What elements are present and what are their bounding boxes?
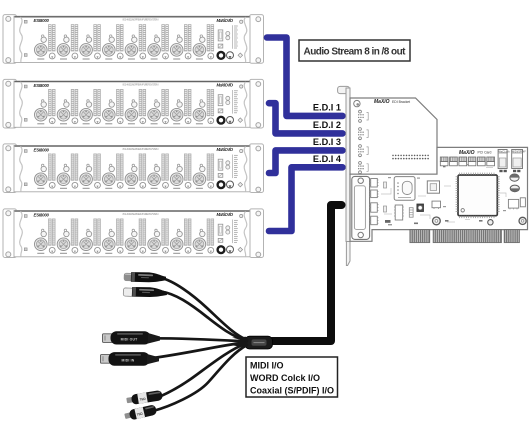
svg-text:MIDI OUT: MIDI OUT xyxy=(121,337,139,341)
svg-text:Coaxial (S/PDIF) I/O: Coaxial (S/PDIF) I/O xyxy=(250,385,334,395)
inductor L1 xyxy=(417,204,424,212)
capacitor C1 xyxy=(433,217,441,225)
svg-text:E.D.I 4: E.D.I 4 xyxy=(313,154,342,164)
svg-text:MaXiO: MaXiO xyxy=(374,99,390,105)
bracket bottom tail xyxy=(346,242,350,266)
IC U1 xyxy=(371,179,378,188)
main breakout cable xyxy=(272,205,342,341)
XLR connector 1 xyxy=(124,272,167,283)
EDI port group 1 xyxy=(358,110,368,122)
rack unit 1 (MaXiO I/O) xyxy=(3,15,264,64)
fan cable to RCA 2 xyxy=(153,345,247,411)
transistor Q1 xyxy=(432,201,441,208)
breakout description box xyxy=(246,357,338,397)
IC U3 xyxy=(371,203,378,212)
breakout hub connector xyxy=(245,336,273,349)
RCA connector 2 xyxy=(124,404,158,421)
fan cable to XLR 2 xyxy=(162,292,247,341)
svg-text:E.D.I 1: E.D.I 1 xyxy=(313,102,341,112)
resistor R1 xyxy=(384,182,387,188)
fan cable to MIDI IN xyxy=(151,343,246,359)
PCI edge connector fingers section 1 xyxy=(410,230,430,243)
RCA connector 1 xyxy=(126,390,163,406)
svg-text:EDI Bracket: EDI Bracket xyxy=(392,100,410,104)
capacitor C4 xyxy=(488,220,493,225)
EDI bracket plate xyxy=(350,98,437,174)
EDI cable 2 (rack2 to card) xyxy=(269,103,343,133)
bracket screw hole xyxy=(354,100,360,106)
resistor array RN1 xyxy=(409,208,413,218)
PCI edge connector fingers section 2 xyxy=(433,230,501,243)
rack unit 2 (MaXiO I/O) xyxy=(3,79,264,128)
chip U6 xyxy=(427,181,439,193)
connector block J7 xyxy=(498,150,507,169)
IC U8 xyxy=(508,199,518,208)
EDI cable 3 (rack3 to card) xyxy=(269,150,343,173)
EDI port group 4 xyxy=(358,162,368,174)
IC U2 xyxy=(371,190,378,198)
fan cable to XLR 1 xyxy=(161,278,247,340)
EDI cable 1 (rack1 to card) xyxy=(267,38,343,116)
resistor R3 xyxy=(385,220,391,223)
IC U5 xyxy=(395,205,403,220)
Audio Stream callout box xyxy=(299,40,410,61)
fan cable to RCA 1 xyxy=(160,344,246,397)
capacitor C3 xyxy=(510,185,519,192)
PCI card PCB outline xyxy=(350,147,528,241)
cable bundle wedge at hub xyxy=(230,337,246,348)
svg-text:WaCLock: WaCLock xyxy=(499,149,511,153)
MIDI OUT DIN connector xyxy=(103,331,161,344)
jumper pads xyxy=(499,170,502,172)
rack unit 3 (MaXiO I/O) xyxy=(3,144,264,193)
svg-text:WORD Colck I/O: WORD Colck I/O xyxy=(250,373,320,383)
svg-text:MIDI I/O: MIDI I/O xyxy=(250,361,284,371)
oscillator X1 xyxy=(394,177,415,201)
capacitor C2 xyxy=(510,174,519,181)
MIDI IN DIN connector xyxy=(101,352,160,366)
PCI edge connector fingers section 3 xyxy=(504,230,519,243)
D-sub host connector xyxy=(352,176,370,239)
connector block J8 xyxy=(512,150,523,169)
BGA main chip U7 xyxy=(456,173,500,219)
rack unit 4 (MaXiO I/O) xyxy=(3,209,264,258)
transistor Q2 xyxy=(520,198,525,207)
svg-text:PCI Card: PCI Card xyxy=(478,151,492,155)
PCI metal bracket strip xyxy=(338,86,350,93)
fan cable to MIDI OUT xyxy=(151,338,246,341)
resistor R2 xyxy=(384,206,387,212)
IC U4 xyxy=(371,216,378,225)
pcb trace marks xyxy=(381,168,506,223)
EDI cable 4 (rack4 to card) xyxy=(269,167,343,231)
bracket pin-hole dot grid xyxy=(392,155,429,160)
svg-text:MaXiO: MaXiO xyxy=(459,150,475,156)
svg-text:E.D.I 3: E.D.I 3 xyxy=(313,137,341,147)
header connector row J1-J6 xyxy=(440,157,494,166)
EDI port group 3 xyxy=(358,145,368,157)
small pads row xyxy=(414,166,483,224)
XLR connector 2 xyxy=(123,286,167,298)
svg-text:MIDI IN: MIDI IN xyxy=(122,358,135,362)
capacitor C5 xyxy=(519,217,526,224)
EDI port group 2 xyxy=(358,128,368,140)
svg-text:E.D.I 2: E.D.I 2 xyxy=(313,120,341,130)
svg-text:MIDI/SPDIF: MIDI/SPDIF xyxy=(512,149,526,153)
svg-text:Audio Stream 8 in /8 out: Audio Stream 8 in /8 out xyxy=(304,46,407,57)
